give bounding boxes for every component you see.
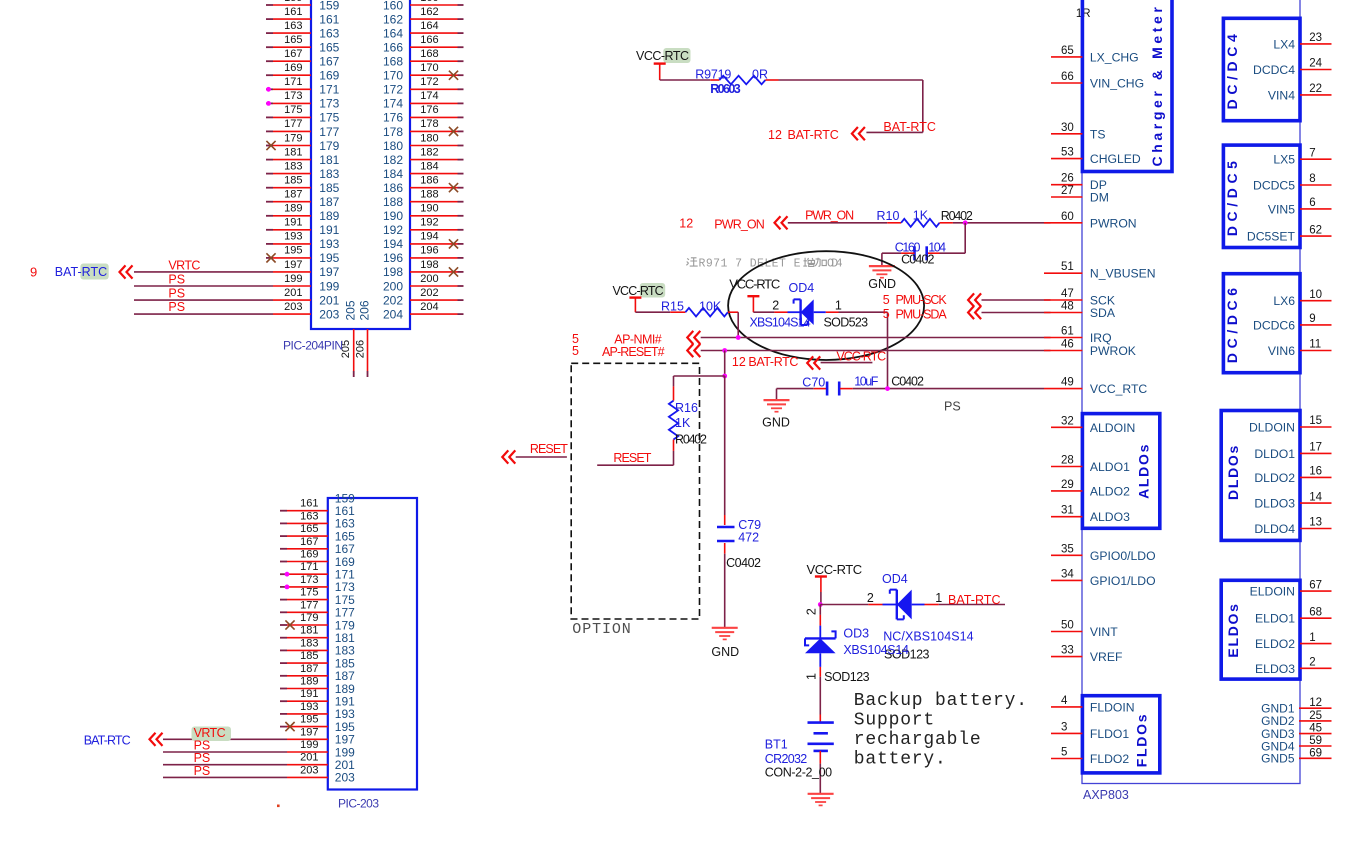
svg-text:VREF: VREF bbox=[1090, 650, 1123, 664]
svg-text:188: 188 bbox=[420, 189, 438, 201]
svg-text:160: 160 bbox=[383, 0, 403, 12]
svg-text:PMU-SCK: PMU-SCK bbox=[896, 293, 948, 307]
svg-text:BAT-RTC: BAT-RTC bbox=[883, 120, 936, 134]
svg-text:193: 193 bbox=[300, 701, 318, 713]
svg-text:ALDO1: ALDO1 bbox=[1090, 460, 1130, 474]
svg-text:183: 183 bbox=[300, 637, 318, 649]
svg-text:164: 164 bbox=[420, 20, 438, 32]
svg-text:PS: PS bbox=[194, 764, 211, 778]
svg-text:198: 198 bbox=[420, 259, 438, 271]
svg-text:VCC-RTC: VCC-RTC bbox=[807, 562, 863, 577]
svg-text:BT1: BT1 bbox=[765, 737, 788, 751]
svg-text:196: 196 bbox=[420, 245, 438, 257]
svg-text:31: 31 bbox=[1061, 505, 1074, 517]
svg-text:ELDO1: ELDO1 bbox=[1255, 612, 1295, 626]
svg-text:199: 199 bbox=[319, 279, 339, 293]
svg-text:60: 60 bbox=[1061, 211, 1074, 223]
svg-text:173: 173 bbox=[284, 90, 302, 102]
svg-text:RESET: RESET bbox=[613, 451, 651, 465]
svg-text:BAT-RTC: BAT-RTC bbox=[948, 593, 1001, 607]
svg-text:187: 187 bbox=[284, 189, 302, 201]
svg-text:170: 170 bbox=[420, 62, 438, 74]
svg-text:47: 47 bbox=[1061, 288, 1074, 300]
svg-text:163: 163 bbox=[284, 20, 302, 32]
svg-text:163: 163 bbox=[300, 510, 318, 522]
svg-text:177: 177 bbox=[300, 599, 318, 611]
svg-text:181: 181 bbox=[284, 146, 302, 158]
svg-text:67: 67 bbox=[1309, 579, 1322, 591]
svg-text:1: 1 bbox=[1309, 632, 1315, 644]
svg-text:2: 2 bbox=[867, 591, 874, 605]
svg-text:VRTC: VRTC bbox=[168, 259, 200, 273]
svg-text:PWR_ON: PWR_ON bbox=[714, 217, 765, 231]
svg-text:192: 192 bbox=[420, 217, 438, 229]
svg-text:185: 185 bbox=[319, 181, 339, 195]
svg-text:177: 177 bbox=[284, 118, 302, 130]
svg-text:BAT-RTC: BAT-RTC bbox=[748, 355, 798, 369]
svg-text:17: 17 bbox=[1309, 442, 1322, 454]
svg-text:GND: GND bbox=[868, 277, 896, 291]
svg-text:169: 169 bbox=[284, 62, 302, 74]
svg-text:VIN5: VIN5 bbox=[1268, 202, 1295, 216]
svg-text:188: 188 bbox=[383, 195, 403, 209]
svg-text:65: 65 bbox=[1061, 45, 1074, 57]
svg-text:16: 16 bbox=[1309, 466, 1322, 478]
svg-text:R0603: R0603 bbox=[710, 82, 741, 96]
svg-text:R16: R16 bbox=[675, 401, 698, 415]
svg-text:AXP803: AXP803 bbox=[1083, 788, 1129, 802]
svg-text:46: 46 bbox=[1061, 339, 1074, 351]
svg-text:12: 12 bbox=[732, 355, 746, 369]
svg-text:R10: R10 bbox=[877, 209, 900, 223]
svg-text:5: 5 bbox=[883, 293, 890, 307]
svg-text:5: 5 bbox=[572, 344, 579, 358]
svg-text:205: 205 bbox=[344, 300, 358, 320]
svg-text:DC/DC4: DC/DC4 bbox=[1224, 30, 1240, 110]
svg-text:201: 201 bbox=[284, 287, 302, 299]
svg-text:DM: DM bbox=[1090, 191, 1109, 205]
svg-text:180: 180 bbox=[420, 132, 438, 144]
svg-text:34: 34 bbox=[1061, 568, 1074, 580]
svg-text:12: 12 bbox=[1309, 697, 1322, 709]
svg-text:VIN_CHG: VIN_CHG bbox=[1090, 77, 1144, 91]
svg-text:DLDO4: DLDO4 bbox=[1254, 522, 1295, 536]
svg-text:182: 182 bbox=[383, 153, 403, 167]
svg-text:6: 6 bbox=[1309, 197, 1315, 209]
svg-text:9: 9 bbox=[30, 265, 37, 280]
svg-text:2: 2 bbox=[804, 608, 818, 615]
svg-text:172: 172 bbox=[383, 83, 403, 97]
svg-text:GPIO0/LDO: GPIO0/LDO bbox=[1090, 549, 1156, 563]
svg-text:182: 182 bbox=[420, 146, 438, 158]
svg-text:27: 27 bbox=[1061, 185, 1074, 197]
svg-text:161: 161 bbox=[284, 6, 302, 18]
svg-text:197: 197 bbox=[300, 726, 318, 738]
svg-text:2: 2 bbox=[1309, 657, 1315, 669]
svg-text:191: 191 bbox=[300, 688, 318, 700]
svg-text:162: 162 bbox=[383, 12, 403, 26]
svg-text:173: 173 bbox=[300, 574, 318, 586]
svg-text:169: 169 bbox=[319, 69, 339, 83]
svg-text:R0402: R0402 bbox=[941, 209, 973, 223]
svg-text:GPIO1/LDO: GPIO1/LDO bbox=[1090, 574, 1156, 588]
svg-text:167: 167 bbox=[319, 55, 339, 69]
svg-text:174: 174 bbox=[383, 97, 403, 111]
svg-text:10: 10 bbox=[1309, 289, 1322, 301]
svg-text:FLDOIN: FLDOIN bbox=[1090, 700, 1135, 714]
svg-text:C70: C70 bbox=[802, 375, 825, 389]
svg-text:191: 191 bbox=[284, 217, 302, 229]
svg-text:5: 5 bbox=[883, 307, 890, 321]
svg-text:165: 165 bbox=[284, 34, 302, 46]
svg-text:PS: PS bbox=[168, 300, 185, 314]
svg-text:203: 203 bbox=[335, 771, 355, 785]
svg-text:VCC-RTC: VCC-RTC bbox=[636, 49, 689, 63]
svg-text:9: 9 bbox=[1309, 313, 1315, 325]
svg-text:35: 35 bbox=[1061, 543, 1074, 555]
svg-text:XBS104S14: XBS104S14 bbox=[843, 643, 909, 657]
svg-text:DC/DC5: DC/DC5 bbox=[1224, 156, 1240, 236]
svg-text:160: 160 bbox=[420, 0, 438, 4]
svg-text:GND: GND bbox=[711, 645, 739, 659]
svg-text:203: 203 bbox=[284, 301, 302, 313]
svg-text:VCC-RTC: VCC-RTC bbox=[729, 276, 780, 291]
svg-text:194: 194 bbox=[420, 231, 438, 243]
svg-text:VIN6: VIN6 bbox=[1268, 344, 1295, 358]
svg-text:PS: PS bbox=[168, 286, 185, 300]
svg-text:165: 165 bbox=[319, 41, 339, 55]
svg-text:DLDO3: DLDO3 bbox=[1254, 497, 1295, 511]
svg-text:49: 49 bbox=[1061, 377, 1074, 389]
svg-text:162: 162 bbox=[420, 6, 438, 18]
svg-text:168: 168 bbox=[383, 55, 403, 69]
svg-text:172: 172 bbox=[420, 76, 438, 88]
svg-text:199: 199 bbox=[300, 739, 318, 751]
svg-text:33: 33 bbox=[1061, 645, 1074, 657]
svg-text:186: 186 bbox=[383, 181, 403, 195]
svg-text:DLDOs: DLDOs bbox=[1225, 444, 1241, 500]
svg-text:61: 61 bbox=[1061, 326, 1074, 338]
svg-text:LX4: LX4 bbox=[1273, 37, 1295, 51]
svg-text:202: 202 bbox=[420, 287, 438, 299]
svg-text:DCDC6: DCDC6 bbox=[1253, 318, 1295, 332]
svg-text:159: 159 bbox=[284, 0, 302, 4]
svg-text:R971 7 DELET E: R971 7 DELET E bbox=[699, 258, 801, 271]
svg-text:11: 11 bbox=[1309, 339, 1321, 351]
svg-text:185: 185 bbox=[300, 650, 318, 662]
svg-text:Charger & Meter: Charger & Meter bbox=[1149, 4, 1165, 167]
svg-text:BAT-RTC: BAT-RTC bbox=[55, 265, 107, 279]
svg-text:RESET: RESET bbox=[530, 442, 568, 456]
svg-text:DCDC4: DCDC4 bbox=[1253, 63, 1295, 77]
svg-text:177: 177 bbox=[319, 125, 339, 139]
svg-text:176: 176 bbox=[383, 111, 403, 125]
svg-text:BAT-RTC: BAT-RTC bbox=[788, 128, 839, 142]
svg-text:181: 181 bbox=[319, 153, 339, 167]
svg-text:PIC-204PIN: PIC-204PIN bbox=[283, 339, 343, 353]
svg-text:175: 175 bbox=[319, 111, 339, 125]
svg-text:15: 15 bbox=[1309, 415, 1322, 427]
svg-text:197: 197 bbox=[284, 259, 302, 271]
svg-text:VINT: VINT bbox=[1090, 625, 1118, 639]
svg-text:FLDOs: FLDOs bbox=[1133, 713, 1149, 767]
svg-text:195: 195 bbox=[319, 251, 339, 265]
svg-text:179: 179 bbox=[300, 612, 318, 624]
svg-text:192: 192 bbox=[383, 223, 403, 237]
svg-text:202: 202 bbox=[383, 293, 403, 307]
svg-text:193: 193 bbox=[284, 231, 302, 243]
svg-text:PMU-SDA: PMU-SDA bbox=[896, 308, 948, 322]
svg-text:OD3: OD3 bbox=[843, 627, 869, 641]
svg-text:66: 66 bbox=[1061, 71, 1074, 83]
svg-text:186: 186 bbox=[420, 175, 438, 187]
svg-text:169: 169 bbox=[300, 549, 318, 561]
svg-text:168: 168 bbox=[420, 48, 438, 60]
svg-text:CHGLED: CHGLED bbox=[1090, 152, 1141, 166]
svg-text:204: 204 bbox=[383, 307, 403, 321]
svg-text:193: 193 bbox=[319, 237, 339, 251]
svg-text:185: 185 bbox=[284, 175, 302, 187]
svg-text:171: 171 bbox=[319, 83, 339, 97]
svg-text:203: 203 bbox=[319, 307, 339, 321]
svg-text:206: 206 bbox=[355, 340, 367, 358]
svg-text:179: 179 bbox=[284, 132, 302, 144]
svg-text:167: 167 bbox=[300, 536, 318, 548]
svg-text:184: 184 bbox=[420, 160, 438, 172]
svg-text:FLDO1: FLDO1 bbox=[1090, 727, 1130, 741]
svg-text:201: 201 bbox=[300, 752, 318, 764]
svg-text:14: 14 bbox=[1309, 491, 1322, 503]
svg-text:166: 166 bbox=[383, 41, 403, 55]
svg-text:161: 161 bbox=[300, 498, 318, 510]
svg-text:PWRON: PWRON bbox=[1090, 216, 1137, 230]
svg-text:174: 174 bbox=[420, 90, 438, 102]
svg-text:12: 12 bbox=[768, 128, 782, 142]
svg-text:180: 180 bbox=[383, 139, 403, 153]
svg-text:CON-2-2_00: CON-2-2_00 bbox=[765, 765, 832, 779]
svg-text:194: 194 bbox=[383, 237, 403, 251]
svg-text:183: 183 bbox=[284, 160, 302, 172]
svg-text:7: 7 bbox=[1309, 147, 1315, 159]
svg-text:204: 204 bbox=[420, 301, 438, 313]
svg-text:10K: 10K bbox=[699, 300, 722, 314]
svg-text:DC5SET: DC5SET bbox=[1247, 230, 1296, 244]
svg-text:50: 50 bbox=[1061, 620, 1074, 632]
svg-text:178: 178 bbox=[383, 125, 403, 139]
svg-text:165: 165 bbox=[300, 523, 318, 535]
svg-text:ALDOs: ALDOs bbox=[1136, 443, 1152, 499]
svg-text:170: 170 bbox=[383, 69, 403, 83]
svg-text:189: 189 bbox=[319, 209, 339, 223]
svg-text:3: 3 bbox=[1061, 721, 1067, 733]
svg-text:200: 200 bbox=[420, 273, 438, 285]
svg-text:1K: 1K bbox=[913, 208, 929, 222]
svg-text:OD4: OD4 bbox=[882, 572, 908, 586]
svg-text:0R: 0R bbox=[752, 68, 768, 82]
svg-text:8: 8 bbox=[1309, 173, 1315, 185]
svg-text:ALDOIN: ALDOIN bbox=[1090, 421, 1135, 435]
svg-text:159: 159 bbox=[319, 0, 339, 12]
svg-text:195: 195 bbox=[300, 714, 318, 726]
svg-text:1: 1 bbox=[804, 673, 818, 680]
svg-text:25: 25 bbox=[1309, 710, 1322, 722]
svg-text:48: 48 bbox=[1061, 301, 1074, 313]
svg-text:ALDO3: ALDO3 bbox=[1090, 510, 1130, 524]
svg-text:32: 32 bbox=[1061, 415, 1074, 427]
svg-text:GND5: GND5 bbox=[1261, 752, 1295, 766]
svg-text:197: 197 bbox=[319, 265, 339, 279]
svg-text:179: 179 bbox=[319, 139, 339, 153]
svg-text:1: 1 bbox=[835, 299, 842, 313]
svg-text:163: 163 bbox=[319, 26, 339, 40]
svg-text:AP-RESET#: AP-RESET# bbox=[602, 345, 665, 359]
svg-text:23: 23 bbox=[1309, 32, 1322, 44]
svg-text:201: 201 bbox=[319, 293, 339, 307]
svg-text:PWR_ON: PWR_ON bbox=[805, 208, 854, 222]
svg-text:189: 189 bbox=[300, 676, 318, 688]
svg-text:battery.: battery. bbox=[854, 750, 947, 770]
svg-text:IRQ: IRQ bbox=[1090, 331, 1112, 345]
svg-text:183: 183 bbox=[319, 167, 339, 181]
svg-text:69: 69 bbox=[1309, 747, 1322, 759]
svg-text:173: 173 bbox=[319, 97, 339, 111]
svg-text:N_VBUSEN: N_VBUSEN bbox=[1090, 267, 1156, 281]
svg-text:VIN4: VIN4 bbox=[1268, 88, 1295, 102]
svg-text:196: 196 bbox=[383, 251, 403, 265]
svg-text:30: 30 bbox=[1061, 122, 1074, 134]
svg-text:TS: TS bbox=[1090, 127, 1106, 141]
svg-text:171: 171 bbox=[300, 561, 318, 573]
svg-text:ELDOIN: ELDOIN bbox=[1250, 585, 1295, 599]
svg-text:PIC-203: PIC-203 bbox=[338, 797, 379, 811]
svg-text:C0402: C0402 bbox=[891, 375, 924, 389]
svg-text:68: 68 bbox=[1309, 606, 1322, 618]
svg-text:199: 199 bbox=[284, 273, 302, 285]
svg-text:VCC-RTC: VCC-RTC bbox=[836, 350, 886, 364]
svg-text:12: 12 bbox=[679, 217, 693, 231]
svg-text:C0402: C0402 bbox=[901, 252, 934, 266]
svg-text:FLDO2: FLDO2 bbox=[1090, 752, 1130, 766]
svg-text:DLDOIN: DLDOIN bbox=[1249, 421, 1295, 435]
svg-text:C0402: C0402 bbox=[726, 556, 761, 570]
svg-text:184: 184 bbox=[383, 167, 403, 181]
svg-text:28: 28 bbox=[1061, 455, 1074, 467]
svg-text:45: 45 bbox=[1309, 723, 1322, 735]
svg-text:203: 203 bbox=[300, 764, 318, 776]
svg-text:161: 161 bbox=[319, 12, 339, 26]
svg-text:DLDO1: DLDO1 bbox=[1254, 447, 1295, 461]
svg-text:195: 195 bbox=[284, 245, 302, 257]
svg-text:ELDO3: ELDO3 bbox=[1255, 662, 1295, 676]
svg-text:175: 175 bbox=[300, 587, 318, 599]
svg-text:181: 181 bbox=[300, 625, 318, 637]
svg-text:R0402: R0402 bbox=[675, 432, 707, 446]
svg-text:1: 1 bbox=[935, 591, 942, 605]
svg-text:ELDOs: ELDOs bbox=[1225, 602, 1241, 657]
svg-text:59: 59 bbox=[1309, 735, 1322, 747]
svg-text:VCC-RTC: VCC-RTC bbox=[613, 284, 664, 298]
svg-text:190: 190 bbox=[383, 209, 403, 223]
svg-text:LX5: LX5 bbox=[1273, 153, 1295, 167]
svg-text:SOD523: SOD523 bbox=[824, 316, 869, 330]
svg-text:189: 189 bbox=[284, 203, 302, 215]
svg-text:DCDC5: DCDC5 bbox=[1253, 179, 1295, 193]
svg-text:ALDO2: ALDO2 bbox=[1090, 484, 1130, 498]
svg-text:191: 191 bbox=[319, 223, 339, 237]
svg-text:VCC_RTC: VCC_RTC bbox=[1090, 382, 1148, 396]
svg-text:175: 175 bbox=[284, 104, 302, 116]
svg-text:5: 5 bbox=[1061, 747, 1067, 759]
svg-text:4: 4 bbox=[1061, 695, 1068, 707]
svg-text:R9719: R9719 bbox=[695, 68, 731, 82]
svg-text:176: 176 bbox=[420, 104, 438, 116]
svg-text:51: 51 bbox=[1061, 261, 1074, 273]
svg-text:187: 187 bbox=[319, 195, 339, 209]
svg-text:OPTION: OPTION bbox=[572, 621, 631, 638]
svg-text:SOD123: SOD123 bbox=[824, 670, 870, 684]
svg-text:198: 198 bbox=[383, 265, 403, 279]
svg-text:DC/DC6: DC/DC6 bbox=[1224, 283, 1240, 363]
svg-text:29: 29 bbox=[1061, 479, 1074, 491]
svg-text:22: 22 bbox=[1309, 83, 1322, 95]
svg-text:NC/XBS104S14: NC/XBS104S14 bbox=[883, 630, 973, 644]
svg-text:187: 187 bbox=[300, 663, 318, 675]
svg-text:472: 472 bbox=[738, 531, 759, 545]
svg-text:Backup battery.: Backup battery. bbox=[854, 691, 1028, 711]
svg-text:OD4: OD4 bbox=[827, 258, 843, 271]
svg-text:PS: PS bbox=[944, 400, 961, 414]
svg-text:190: 190 bbox=[420, 203, 438, 215]
svg-text:53: 53 bbox=[1061, 147, 1074, 159]
svg-text:26: 26 bbox=[1061, 173, 1074, 185]
svg-text:DLDO2: DLDO2 bbox=[1254, 471, 1295, 485]
svg-text:178: 178 bbox=[420, 118, 438, 130]
svg-text:10uF: 10uF bbox=[854, 374, 879, 388]
svg-text:206: 206 bbox=[357, 300, 371, 320]
svg-text:24: 24 bbox=[1309, 58, 1322, 70]
svg-text:BAT-RTC: BAT-RTC bbox=[84, 734, 131, 748]
svg-text:171: 171 bbox=[284, 76, 302, 88]
svg-text:PWROK: PWROK bbox=[1090, 344, 1136, 358]
svg-text:62: 62 bbox=[1309, 224, 1322, 236]
svg-text:1K: 1K bbox=[675, 416, 691, 430]
svg-text:167: 167 bbox=[284, 48, 302, 60]
svg-text:164: 164 bbox=[383, 26, 403, 40]
svg-text:13: 13 bbox=[1309, 517, 1322, 529]
svg-text:Support: Support bbox=[854, 710, 935, 730]
svg-text:PS: PS bbox=[168, 273, 185, 287]
svg-text:166: 166 bbox=[420, 34, 438, 46]
svg-text:CR2032: CR2032 bbox=[765, 752, 807, 766]
svg-text:R15: R15 bbox=[661, 300, 684, 314]
svg-text:ELDO2: ELDO2 bbox=[1255, 637, 1295, 651]
svg-text:200: 200 bbox=[383, 279, 403, 293]
svg-text:2: 2 bbox=[772, 299, 779, 313]
svg-text:LX_CHG: LX_CHG bbox=[1090, 50, 1139, 64]
svg-text:LX6: LX6 bbox=[1273, 294, 1295, 308]
svg-text:SDA: SDA bbox=[1090, 306, 1116, 320]
svg-text:GND: GND bbox=[762, 415, 790, 429]
svg-text:OD4: OD4 bbox=[789, 281, 815, 295]
svg-text:rechargable: rechargable bbox=[854, 730, 982, 750]
